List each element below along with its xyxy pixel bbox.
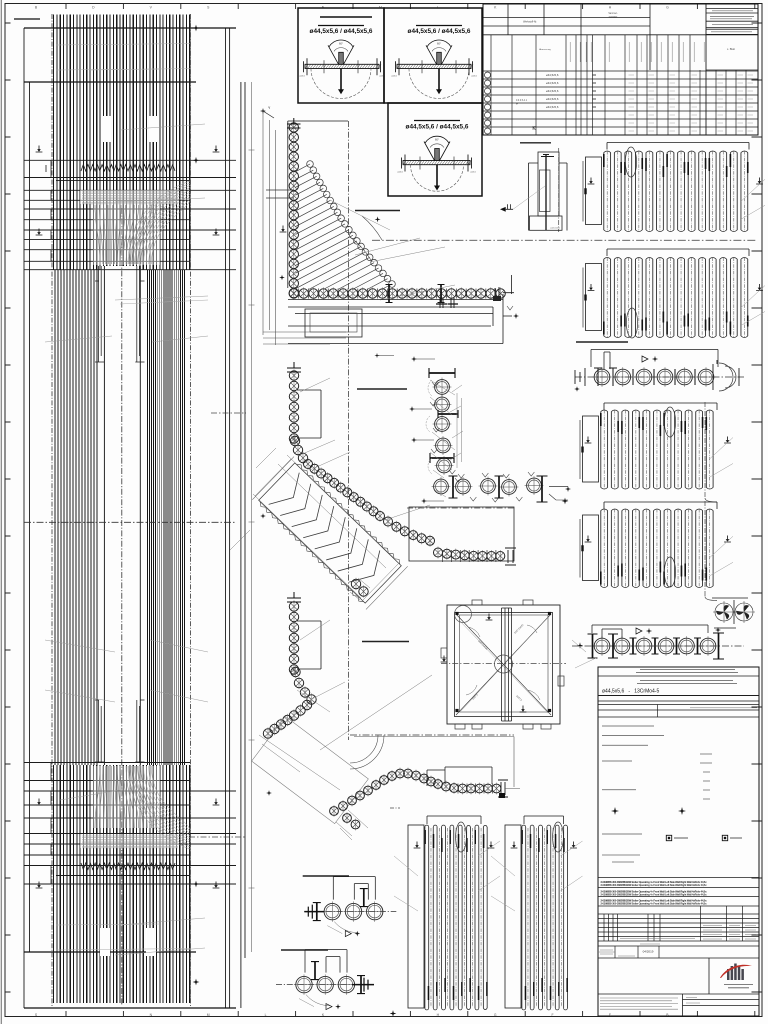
- title block right-side value texts: [700, 754, 712, 799]
- star marker left of panels: [562, 498, 569, 505]
- panel B2 left end chamber: [586, 264, 602, 331]
- revision table: [598, 914, 759, 941]
- slot inner rail lines lower: [99, 700, 140, 762]
- panel P2 dark weld ticks: [521, 830, 523, 844]
- signature boxes row: [615, 946, 659, 958]
- right side dash-dot stub lines: [189, 413, 246, 837]
- company logo text lines: [724, 985, 753, 988]
- panel P2 top chamber rect: [505, 825, 521, 1008]
- bend detail B leader lines: [300, 378, 430, 520]
- title block main field text lines: [602, 726, 664, 834]
- panel P1 top chamber rect: [408, 825, 424, 1008]
- panel P2 weld arrows: [511, 842, 518, 849]
- row R1 left end symbols: [575, 368, 585, 386]
- tube cross-section row R1 circles: [594, 369, 610, 385]
- title block thin rows: [598, 701, 759, 717]
- chain C dimension extension lines: [457, 393, 462, 468]
- svg-text:M: M: [207, 1013, 210, 1017]
- panel B3 balloon ellipse: [664, 407, 675, 437]
- bottom detail G1 overline: [303, 875, 349, 877]
- pipe detail K dash-dot axis: [558, 148, 560, 232]
- bend detail 1 dimension verticals: [263, 110, 276, 345]
- bend detail 1 Y-arrow marker: [260, 108, 266, 114]
- lower slot funnel overlay: [93, 766, 160, 828]
- detail G1 angle arc and arrow: [334, 922, 358, 933]
- svg-text:Abmessung: Abmessung: [539, 48, 551, 51]
- chain C stars and Y labels: [411, 356, 417, 362]
- bend detail 1 header right verticals: [493, 275, 514, 344]
- pipe detail K center pipe line: [545, 154, 547, 231]
- weld detail D3 overline: [414, 120, 460, 122]
- chain D I-beam posts: [452, 476, 454, 498]
- chain F bracket: [427, 767, 492, 786]
- dense tube lines mid-height left bundle: [55, 270, 97, 765]
- BOM small row dashes right side: [629, 75, 754, 131]
- chain C zigzag leaders: [430, 380, 463, 497]
- company logo bars: [727, 969, 730, 980]
- weld detail D2 dashed arc below: [409, 69, 469, 99]
- weld detail box D3 frame: [388, 103, 482, 196]
- revision table small texts: [703, 926, 756, 940]
- bend detail 1 axis dash-dot vertical: [348, 121, 350, 740]
- row R1 dimension bracket: [591, 350, 718, 370]
- panel P1 weld arrows: [414, 842, 421, 849]
- row R2 dimension bracket: [592, 625, 708, 638]
- bottom-left disclaimer text block: [600, 998, 678, 1009]
- weld detail D2 V-groove fan: [426, 45, 452, 64]
- chevron panel dimension diagonals: [253, 455, 399, 600]
- bend detail 1 pipe stubs: [440, 298, 454, 308]
- upper slot funnel overlay: [93, 204, 160, 265]
- bend detail B diagonal chain along panel edge: [304, 460, 313, 469]
- detail G1 I-beam fittings: [316, 903, 318, 921]
- panel B3 left end chamber: [583, 416, 599, 482]
- weld detail D1 extra top overline: [320, 16, 372, 18]
- tube cross-section row R2 centerline: [572, 645, 744, 647]
- bend detail 1 down arrow: [280, 226, 287, 233]
- panel B3 riser dash-dot: [704, 402, 706, 498]
- panel B3 dark weld tick marks: [600, 413, 602, 426]
- tube cross-section row R2 circles: [594, 638, 610, 654]
- svg-text:ø44,5: ø44,5: [391, 75, 397, 77]
- panel P1 vertical tubes: [425, 825, 429, 1010]
- square panel H center strips: [502, 608, 512, 721]
- bottom detail G2 overline: [281, 949, 328, 951]
- upper right diagonal tube sweep: [128, 181, 190, 264]
- svg-text:ø44,5: ø44,5: [397, 172, 403, 174]
- svg-text:s. Blatt: s. Blatt: [727, 47, 735, 51]
- pipe detail K inner rect: [538, 152, 559, 216]
- weld detail D2 vertical pipe: [437, 52, 442, 64]
- panel B1 left end chamber: [586, 157, 602, 225]
- bend detail 2 star: [266, 790, 272, 796]
- panel B2 side weld arrows: [588, 284, 595, 291]
- panel P2 vertical tubes: [522, 825, 526, 1010]
- svg-text:ø44,5x5,6: ø44,5x5,6: [546, 89, 559, 93]
- slot rail caps: [95, 281, 145, 762]
- BOM row tick marks column: [593, 75, 597, 107]
- svg-text:ø44,5x5,6: ø44,5x5,6: [546, 81, 559, 85]
- detail G1 tube circles: [324, 903, 340, 919]
- square panel H outer frame: [447, 605, 560, 724]
- square panel H diagonal dim texts: [472, 623, 525, 702]
- square panel H angle arcs: [468, 627, 480, 637]
- bend detail B lower diagonal chain: [384, 517, 393, 526]
- row R2 I-beam posts: [592, 634, 594, 658]
- svg-text:2-0398885-300-388/288/JBW Boil: 2-0398885-300-388/288/JBW Boiler Operati…: [601, 892, 708, 896]
- view label above detail2: [362, 641, 409, 643]
- white gap rectangles in upper tube block: [103, 116, 113, 142]
- panel B4 side weld arrows: [585, 536, 592, 543]
- panel B3 side weld arrows: [585, 437, 592, 444]
- panel B1 balloon ellipse: [625, 147, 636, 177]
- svg-text:ø44,5: ø44,5: [470, 172, 476, 174]
- svg-text:L: L: [265, 1013, 267, 1017]
- pipe detail K outer box: [529, 163, 568, 231]
- bend detail 1 leaders: [330, 200, 455, 300]
- lower right diagonal tube sweep: [128, 766, 190, 849]
- square panel H edge tabs: [441, 648, 447, 658]
- BOM table outer frame: [483, 4, 758, 135]
- BOM right header block rows: [706, 9, 758, 35]
- left assembly right boundary lines: [226, 28, 246, 1008]
- bend detail 1 dimension arcs: [362, 216, 382, 240]
- panel B2 gray leaders: [741, 286, 765, 326]
- weld detail D1 V-groove fan: [328, 45, 354, 64]
- BOM data rows horizontal lines: [483, 70, 758, 72]
- bend detail B vertical chain: [289, 371, 298, 380]
- panel B4 balloon ellipse: [664, 557, 675, 587]
- chain F dimension border lines: [354, 737, 520, 789]
- black star markers on assembly right edge: [193, 25, 200, 32]
- BOM column header vertical lines: [490, 35, 492, 135]
- weld detail D3 dashed arc below: [411, 165, 464, 192]
- panel P2 tube centerlines: [528, 828, 561, 1007]
- detail G2 bracket: [305, 950, 347, 973]
- bend detail 1 header lines below chain: [288, 300, 503, 344]
- panel B3 tube wall verticals: [601, 412, 713, 488]
- dense vertical tube lines upper full-width block: [54, 15, 190, 271]
- slot inner rail lines upper: [99, 266, 140, 362]
- lower header left stub verticals: [50, 763, 52, 885]
- chain F end fitting: [498, 780, 508, 797]
- svg-text:ø44,5x5,6 / ø44,5x5,6: ø44,5x5,6 / ø44,5x5,6: [310, 28, 373, 35]
- bend detail 2 downleft chain: [302, 700, 311, 709]
- square panel H inner frames: [455, 613, 553, 717]
- view label mid detail1: [357, 388, 407, 390]
- upper tube-bend bright band overlay: [80, 190, 179, 204]
- left assembly central slot area whiteout: [100, 266, 139, 765]
- svg-text:ø44,5x5,6: ø44,5x5,6: [546, 73, 559, 77]
- panel P1 dimension bracket top: [427, 816, 481, 824]
- view label line right of block B2: [576, 341, 628, 343]
- chain D tail and star: [549, 486, 568, 488]
- bend detail 2 rotated dim rectangle: [252, 716, 369, 823]
- bend detail B tail couplers: [443, 550, 496, 562]
- chain C dashed arcs: [426, 380, 432, 474]
- title block checkboxes: [666, 835, 671, 840]
- pipe detail K bottom box: [530, 216, 563, 230]
- lower tube-bend bright band overlay: [80, 834, 179, 848]
- weld detail D3 plate bar with hatch: [403, 161, 470, 165]
- svg-text:ø44,5x5,6 - 13CrMo4-5: ø44,5x5,6 - 13CrMo4-5: [602, 689, 659, 695]
- svg-text:►: ►: [516, 103, 518, 106]
- detail G2 tube circles: [296, 976, 312, 992]
- svg-text:ø44,5: ø44,5: [471, 75, 477, 77]
- weld detail D1 end plates and ticks: [304, 58, 381, 75]
- dimension line right of left assembly: [251, 82, 253, 952]
- chain F horizontal run circles: [458, 784, 467, 793]
- svg-text:nummer: nummer: [609, 16, 618, 19]
- panel B4 tube centerlines dash-dot: [604, 509, 710, 588]
- square panel H down arrows: [486, 614, 493, 621]
- panel B2 dark weld tick marks: [603, 322, 605, 335]
- bend detail 2 leader lines: [297, 620, 345, 712]
- detail G2 angle arc and arrow: [306, 995, 330, 1006]
- svg-text:Sammel-: Sammel-: [608, 13, 617, 15]
- white rect below chain D: [409, 507, 514, 561]
- bend detail 1 frame: [288, 121, 348, 288]
- weld detail D1 vertical pipe: [339, 52, 344, 64]
- detail G1 bracket: [333, 877, 375, 900]
- detail G2 I-beam fittings: [360, 976, 362, 994]
- panel B1 side weld arrows: [588, 178, 595, 185]
- bend detail 2 long diagonal dimension lines: [259, 675, 432, 790]
- row R1 right end fitting arcs: [719, 363, 736, 391]
- row below revision table: [598, 945, 759, 947]
- panel B2 tube wall verticals: [604, 259, 748, 336]
- weld detail D2 plate bar with hatch: [397, 64, 471, 68]
- svg-text:2-0398885-300-388/288/JBW Boil: 2-0398885-300-388/288/JBW Boiler Operati…: [601, 883, 708, 887]
- panel B3 tube centerlines dash-dot: [604, 410, 710, 489]
- panel B2 balloon ellipse: [626, 308, 637, 338]
- bend detail 1 fan of diagonal tubes: [296, 164, 393, 290]
- slot boundary vertical lines: [104, 266, 140, 765]
- row R2 arrow and star: [636, 628, 642, 634]
- left membrane-wall assembly outer left boundary lines: [24, 28, 30, 1008]
- weld detail D2 end plates and ticks: [396, 58, 473, 75]
- square panel H center circle: [495, 655, 513, 673]
- panel B3 gray leaders: [709, 438, 733, 478]
- lower header horizontal lines: [24, 763, 236, 885]
- panel B2 tube centerlines dash-dot: [607, 258, 744, 338]
- chain F hump circles: [330, 807, 339, 816]
- svg-text:2-0398885-300-388/288/JBW Boil: 2-0398885-300-388/288/JBW Boiler Operati…: [601, 901, 708, 905]
- panel B1 tube centerlines dash-dot: [607, 151, 744, 232]
- upper header left stub verticals: [46, 160, 51, 261]
- weld detail D1 dashed arc below: [311, 69, 371, 99]
- svg-text:ø44,5x5,6 / ø44,5x5,6: ø44,5x5,6 / ø44,5x5,6: [406, 124, 469, 131]
- bottom border star marker: [390, 1010, 397, 1017]
- weld detail D3 vertical pipe: [435, 149, 440, 161]
- chain D horizontal big circles: [456, 479, 471, 494]
- bottom-right small table: [683, 1000, 760, 1006]
- chain F couplers: [458, 784, 493, 794]
- bend detail B bend circles: [290, 436, 299, 445]
- dense tube lines mid-height right bundle: [147, 270, 184, 765]
- panel B2 dimension bracket: [607, 249, 749, 256]
- down-arrow weld symbols on left assembly: [36, 146, 43, 153]
- panel P1 balloon ellipse: [456, 822, 467, 852]
- panel P2 dimension bracket top: [524, 816, 564, 824]
- chain D centerline dash-dot: [407, 507, 514, 509]
- panel B4 left end chamber: [583, 515, 599, 581]
- assembly mid-height centerline dash-dot: [24, 521, 236, 523]
- square panel H diagonals: [456, 614, 551, 715]
- bend detail 1 chain top fittings: [287, 118, 301, 128]
- BOM column header rotated text strokes: [570, 42, 704, 62]
- weld detail box D2 frame: [384, 8, 482, 103]
- title block outer frame: [598, 667, 759, 1016]
- title block top note lines: [636, 670, 738, 673]
- weld detail D1 plate bar with hatch: [305, 64, 379, 68]
- left assembly top and bottom closure lines: [24, 28, 236, 1008]
- lower weld zigzag band: [81, 863, 175, 870]
- title block small texts lower: [602, 855, 640, 862]
- panel B1 dark weld tick marks: [603, 154, 605, 167]
- panel B4 riser dash-dot: [704, 501, 706, 597]
- bend detail 2 axis dash-dot vertical: [350, 734, 514, 736]
- weld detail D3 V-groove fan: [424, 142, 450, 161]
- title block stars: [611, 807, 619, 815]
- svg-text:04/2019: 04/2019: [643, 950, 654, 954]
- left assembly gray leader annotations: [45, 124, 208, 955]
- detail G2 centerline: [276, 984, 368, 986]
- panel B1 gray leaders: [741, 179, 765, 219]
- panel P1 gray leaders: [394, 841, 500, 911]
- impeller detail top-right of row R2: [715, 603, 733, 621]
- left assembly faint crossing annotations top band: [56, 44, 208, 305]
- dense vertical tube lines lower full-width block: [54, 765, 190, 1003]
- panel B1 dimension bracket: [607, 143, 749, 150]
- BOM right header tiny text lines: [710, 11, 754, 32]
- svg-text:0.0.0.5-4.1: 0.0.0.5-4.1: [516, 100, 528, 102]
- bend detail 1 envelope bend-tube circles: [307, 161, 314, 168]
- chevron panel bottom circle pair: [351, 579, 360, 588]
- square panel H corner welds: [455, 612, 458, 615]
- bend detail 2 bend circles: [291, 667, 300, 676]
- panel P1 tube centerlines: [431, 828, 481, 1007]
- bend detail 1 star left of chain: [279, 275, 285, 281]
- svg-text:ø44,5x5,6 / ø44,5x5,6: ø44,5x5,6 / ø44,5x5,6: [408, 28, 471, 35]
- weld detail D2 overline: [416, 25, 462, 27]
- bend detail 2 bracket rect: [297, 621, 321, 669]
- panel B3 dimension bracket: [604, 403, 717, 410]
- chain C V-weld marks: [432, 382, 438, 386]
- row R2 left end star: [577, 642, 583, 648]
- panel B4 gray leaders: [709, 536, 733, 576]
- white gap rectangles in lower tube block: [100, 928, 110, 956]
- panel P2 gray leaders: [491, 841, 583, 911]
- chain D V-weld marks: [458, 474, 464, 478]
- page outer edge line: [0, 0, 2, 1024]
- svg-text:ø44,5x5,6: ø44,5x5,6: [550, 227, 561, 229]
- svg-text:60°: 60°: [339, 41, 343, 45]
- detail G1 centerline: [304, 911, 396, 913]
- weld detail D3 end plates and ticks: [402, 155, 472, 172]
- panel B1 tube wall verticals: [604, 153, 748, 231]
- scale bar top-left: [14, 18, 40, 20]
- svg-text:G: G: [494, 1013, 497, 1017]
- panel B4 dark weld tick marks: [600, 572, 602, 585]
- bend detail 1 horizontal tube chain: [289, 289, 298, 298]
- svg-text:ø44,5x5,6: ø44,5x5,6: [546, 105, 559, 109]
- long horizontal dash-dot axis to right side: [372, 239, 757, 241]
- svg-text:ø44,5: ø44,5: [299, 75, 305, 77]
- panel P2 balloon ellipse: [553, 822, 564, 852]
- bend detail 1 left stub lines: [266, 190, 294, 198]
- BOM table left header grid: [483, 18, 758, 35]
- bend detail 2 top fitting: [287, 592, 301, 602]
- panel P1 dark weld ticks: [424, 830, 426, 844]
- panel B4 dimension bracket: [604, 502, 717, 509]
- bend detail B tail end fitting: [505, 548, 516, 565]
- bend detail 1 chain couplers: [299, 289, 496, 299]
- bend detail 1 vertical tube chain: [289, 123, 298, 132]
- pipe detail K overline: [520, 142, 551, 144]
- row R1 arrow and star: [642, 356, 648, 362]
- bend detail 1 bottom dimension lines: [263, 332, 346, 344]
- svg-text:60°: 60°: [437, 41, 441, 45]
- chevron panel rotated group: [252, 457, 407, 610]
- row R1 weld fittings: [598, 368, 695, 386]
- title block dense code rows: [598, 878, 759, 907]
- bend detail B top fitting: [287, 362, 301, 372]
- bend detail B horizontal tail circles: [434, 548, 443, 557]
- weld detail box D1 frame: [298, 8, 384, 103]
- square panel H centerline dash-dot: [441, 663, 566, 665]
- chain C I-beam fittings: [429, 372, 455, 374]
- svg-text:60°: 60°: [435, 138, 439, 142]
- BOM row balloon circles: [485, 72, 491, 78]
- chain F start circle pair: [343, 814, 352, 823]
- row R2 below-left gray leader: [575, 658, 596, 668]
- pipe detail K inner small rect: [540, 170, 551, 212]
- svg-text:G: G: [666, 5, 669, 9]
- weld detail D1 overline: [318, 25, 364, 27]
- logo cell divider: [708, 958, 710, 994]
- left dash-dot stub near P1: [390, 807, 400, 809]
- bend detail 2 vertical chain E: [289, 602, 298, 611]
- bend detail 2 dimension arcs: [350, 735, 378, 763]
- left assembly dash-dot axis lines: [52, 14, 190, 1006]
- svg-text:Werkstoff-Nr.: Werkstoff-Nr.: [523, 21, 537, 24]
- bend detail 1 right end star: [503, 315, 512, 317]
- chain C vertical big circles: [435, 380, 450, 395]
- panel B4 tube wall verticals: [601, 511, 713, 587]
- title block bottom strip: [598, 993, 759, 995]
- slot centerline dash-dot: [121, 208, 123, 1006]
- upper weld zigzag band: [81, 165, 175, 172]
- bend detail 1 view label overline: [355, 210, 400, 212]
- upper header horizontal lines: [24, 160, 236, 269]
- tube cross-section row R1 centerline: [575, 376, 744, 378]
- pipe detail K leader arrow II: [500, 207, 506, 212]
- svg-text:F: F: [552, 1013, 554, 1017]
- svg-text:ø44,5x5,6: ø44,5x5,6: [546, 97, 559, 101]
- bend detail 1 right end fittings: [495, 287, 499, 301]
- bend detail 1 chain B I-beams: [388, 285, 390, 303]
- bend detail 1 lower small box: [305, 309, 362, 337]
- bend detail B bracket rect: [297, 390, 321, 438]
- square panel H corner circle: [455, 606, 472, 623]
- company logo red swoosh: [720, 965, 752, 978]
